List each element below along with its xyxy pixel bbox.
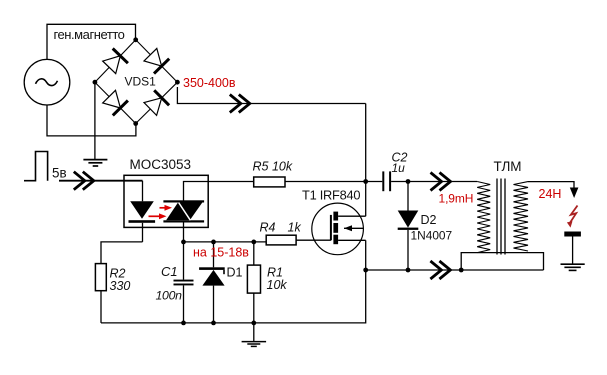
- wire: source down to bottom rail: [365, 240, 367, 270]
- svg-text:T1 IRF840: T1 IRF840: [302, 188, 360, 203]
- wire: bridge diamond edges: [95, 40, 177, 124]
- spark gap electrode bar: [564, 232, 581, 237]
- diode VDS1 top-left: [103, 49, 128, 74]
- svg-text:1N4007: 1N4007: [411, 229, 453, 243]
- svg-text:10k: 10k: [267, 278, 288, 292]
- connector arrow on primary wire: [431, 173, 451, 191]
- red light arrow upper: [160, 205, 173, 211]
- resistor R2: [95, 264, 106, 323]
- ground (bridge/common): [83, 160, 107, 166]
- wire: bridge left node down to ground: [94, 82, 96, 159]
- wire: secondary top to output: [528, 182, 574, 188]
- junction: D1 tap: [211, 240, 216, 245]
- node: bridge bottom: [133, 121, 138, 126]
- phototriac inside optocoupler: [163, 200, 204, 222]
- node: bridge right (+HV): [175, 80, 180, 85]
- svg-text:MOC3053: MOC3053: [130, 157, 192, 172]
- diode VDS1 bottom-right: [144, 90, 169, 115]
- resistor R4: [266, 235, 331, 245]
- capacitor C2: [366, 171, 408, 191]
- wire: generator top to bridge top node: [47, 24, 136, 59]
- transformer TLM primary winding (1.9mH): [477, 182, 490, 253]
- junction: R1 tap: [251, 240, 256, 245]
- zener diode D1: [199, 242, 225, 323]
- ground (signal): [242, 342, 267, 347]
- junction: primary return: [459, 268, 464, 273]
- wire: left ground rail: [101, 270, 366, 323]
- svg-text:330: 330: [110, 279, 131, 293]
- wire: rail to signal ground: [253, 323, 255, 342]
- node: bridge left: [93, 80, 98, 85]
- transformer core: [497, 179, 505, 255]
- junction: D1 bottom: [211, 321, 216, 326]
- svg-text:1u: 1u: [392, 161, 406, 175]
- svg-text:ген.магнетто: ген.магнетто: [54, 27, 125, 42]
- connector arrow on HV wire: [230, 95, 250, 113]
- wire: generator bottom to bridge bottom node: [47, 105, 136, 136]
- wire: electrode to ground: [572, 236, 574, 264]
- diode D2: [398, 182, 419, 271]
- wire: triac top lead to R5 line: [184, 182, 254, 202]
- junction: triac/C1 tap: [181, 240, 186, 245]
- resistor R1: [247, 242, 260, 323]
- AC generator G1 (magneto): [24, 59, 70, 105]
- svg-text:R5 10k: R5 10k: [253, 160, 293, 174]
- wire: HV from bridge right node to drain column: [177, 87, 365, 104]
- wire: bottom rail (source to transformer return): [366, 269, 544, 271]
- wire: to transformer primary top: [408, 181, 477, 183]
- capacitor C1: [174, 242, 194, 323]
- svg-text:на 15-18в: на 15-18в: [193, 245, 249, 259]
- svg-text:D1: D1: [227, 266, 243, 280]
- svg-text:VDS1: VDS1: [125, 75, 157, 89]
- wire: drain to HV junction: [365, 182, 367, 217]
- svg-text:1k: 1k: [288, 221, 302, 235]
- pulse symbol (input waveform): [24, 152, 48, 181]
- svg-text:C1: C1: [161, 264, 178, 279]
- svg-text:D2: D2: [421, 213, 437, 227]
- svg-text:1,9mH: 1,9mH: [439, 191, 474, 205]
- connector arrow on 5v input: [74, 172, 94, 190]
- junction: D2 bottom: [406, 268, 411, 273]
- node: bridge top: [133, 37, 138, 42]
- optocoupler U1 MOC3053 body: [124, 175, 208, 227]
- junction: R1 bottom / ground: [251, 321, 256, 326]
- connector arrow on bottom rail: [430, 261, 450, 279]
- transistor T1 (MOSFET IRF840): [312, 203, 366, 255]
- LED inside optocoupler: [129, 181, 156, 242]
- svg-text:ТЛМ: ТЛМ: [494, 159, 522, 174]
- output arrow (electrode tip): [570, 188, 579, 199]
- svg-text:5в: 5в: [52, 166, 67, 181]
- diode VDS1 top-right: [144, 48, 169, 73]
- wire: LED cathode link to R2: [101, 242, 143, 264]
- wire: gate bus (triac to R4): [184, 241, 267, 243]
- junction: source / left rail: [363, 268, 368, 273]
- wire: triac bottom lead to gate bus: [183, 223, 185, 242]
- wire: HV drop to R5/C2 junction: [365, 104, 367, 182]
- svg-text:100n: 100n: [156, 288, 183, 302]
- resistor R5: [254, 177, 366, 187]
- wire: 5v input to LED anode: [59, 180, 143, 182]
- spark (red lightning): [567, 206, 578, 228]
- junction: C1 bottom: [181, 321, 186, 326]
- wire: winding return bus: [461, 253, 543, 270]
- ground (output): [561, 264, 585, 270]
- svg-text:350-400в: 350-400в: [183, 76, 236, 90]
- svg-text:R4: R4: [260, 221, 276, 235]
- red light arrow lower: [149, 213, 167, 219]
- transformer secondary winding (24H): [514, 182, 529, 251]
- junction: HV / R5 / C2 / drain: [363, 179, 368, 184]
- svg-text:24Н: 24Н: [539, 187, 562, 201]
- junction: C2 / D2 / primary: [406, 179, 411, 184]
- diode VDS1 bottom-left: [103, 90, 128, 115]
